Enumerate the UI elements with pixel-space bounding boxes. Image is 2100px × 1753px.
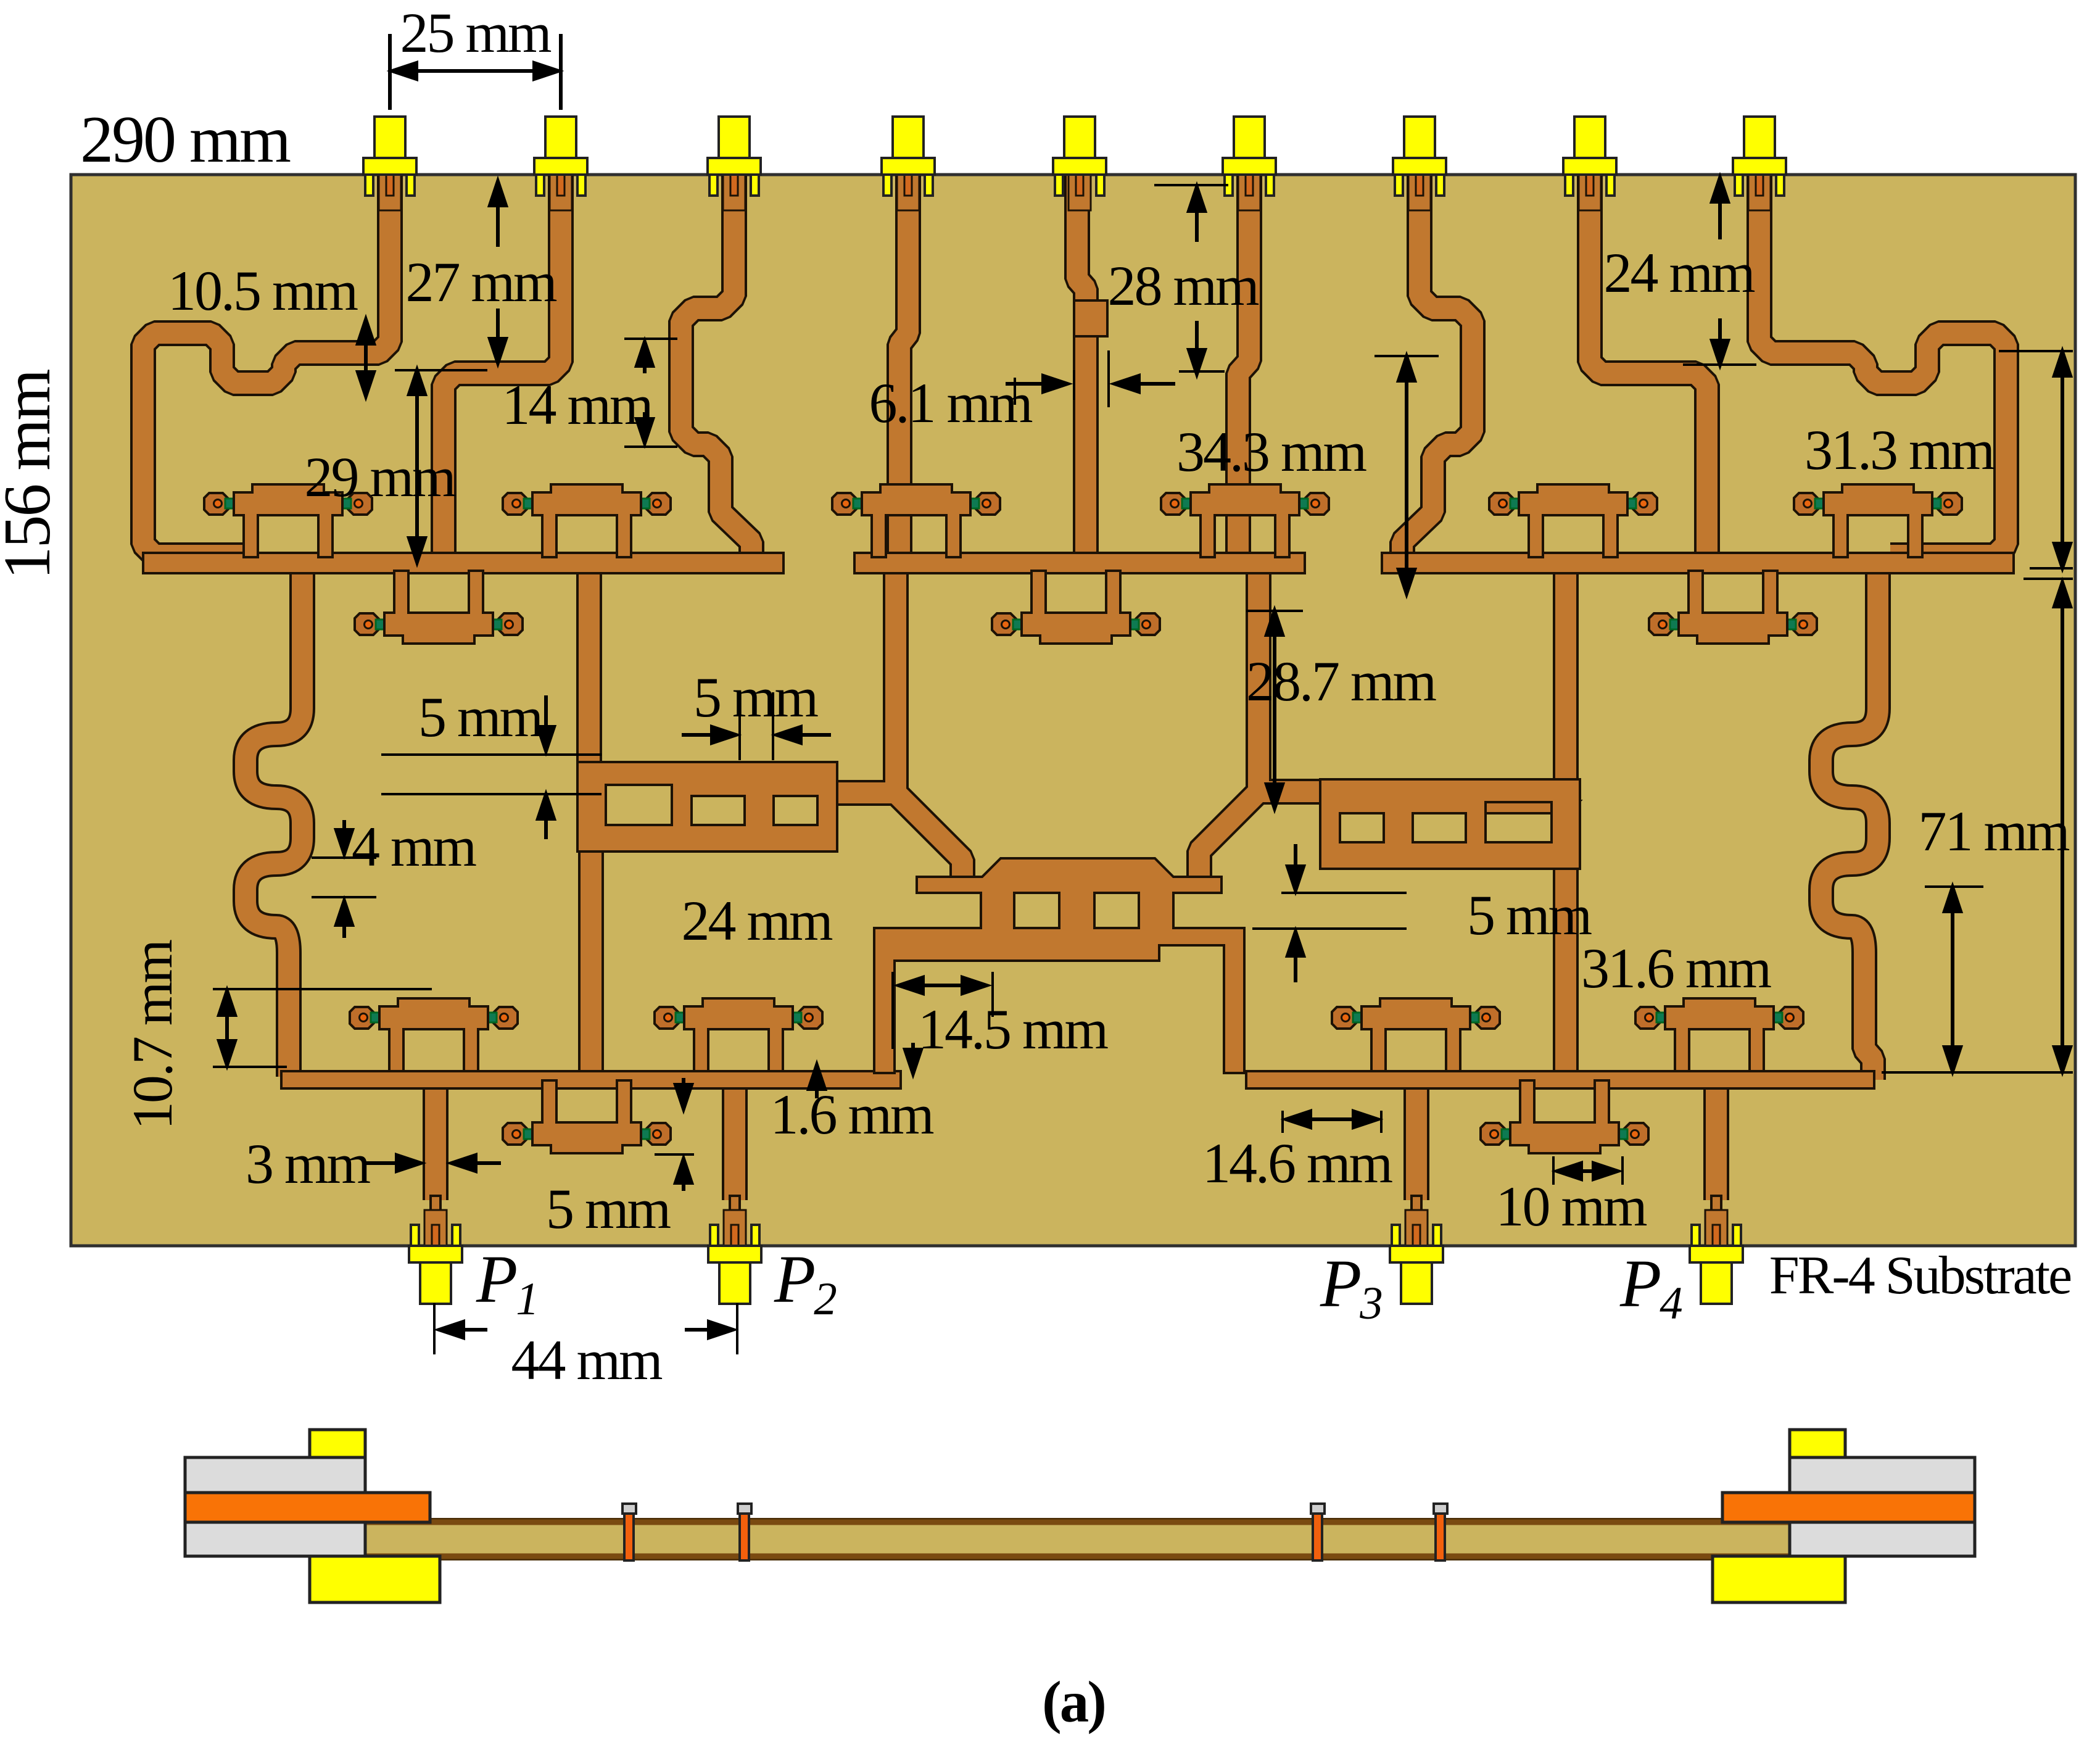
- connector A5: [1053, 117, 1106, 210]
- dim 31.3mm arrow: [2061, 355, 2064, 564]
- svg-text:14.6 mm: 14.6 mm: [1202, 1132, 1393, 1195]
- svg-text:31.6 mm: 31.6 mm: [1581, 937, 1772, 1000]
- svg-text:28.7 mm: 28.7 mm: [1246, 650, 1437, 713]
- connector P3: [1390, 1210, 1443, 1304]
- dim 1.6mm arrows: [911, 1043, 915, 1056]
- wire D5 stem: [1553, 568, 1579, 796]
- dim 28.7mm arrow: [1273, 615, 1276, 805]
- connector A3: [708, 117, 761, 210]
- svg-text:5 mm: 5 mm: [693, 666, 819, 729]
- port narrow pins: [431, 1196, 440, 1246]
- connector A9: [1733, 117, 1786, 210]
- divider D5: [1489, 484, 1657, 557]
- svg-text:5 mm: 5 mm: [546, 1177, 671, 1240]
- wire conn3 feed (fill): [681, 164, 751, 560]
- sideview right connector orange pin: [1722, 1493, 1975, 1522]
- dim 5mm bottom arrows: [682, 1179, 685, 1191]
- wire D4 stem: [1246, 568, 1271, 792]
- sideview left connector orange pin: [185, 1493, 430, 1522]
- combiner C24L bump: [679, 784, 821, 796]
- svg-text:(a): (a): [1042, 1669, 1105, 1734]
- wire conn9 feed meander: [1759, 164, 2006, 555]
- wire C24L output down (fill): [581, 847, 601, 1077]
- wire conn4 feed: [899, 164, 908, 558]
- sideview left connector lower gray: [185, 1522, 365, 1556]
- connector A1: [363, 117, 416, 210]
- dim 14mm arrows: [643, 346, 647, 373]
- svg-text:28 mm: 28 mm: [1107, 254, 1259, 317]
- sideview left connector upper gray: [185, 1457, 365, 1493]
- divider D2: [503, 484, 671, 557]
- dim 24mm arrows (top right): [1718, 181, 1722, 239]
- wire P4 stub (fill): [1706, 1085, 1727, 1200]
- bus row1 middle: [854, 553, 1305, 573]
- wire P1 stub (fill): [425, 1085, 446, 1200]
- connector A2: [534, 117, 587, 210]
- svg-text:14 mm: 14 mm: [502, 373, 653, 436]
- dim 5mm mid ticks/arrows: [738, 692, 741, 760]
- svg-text:1.6 mm: 1.6 mm: [770, 1083, 934, 1146]
- svg-text:5 mm: 5 mm: [418, 686, 544, 748]
- divider DL1: [350, 998, 518, 1071]
- connector A4: [882, 117, 935, 210]
- wire P3 stub (fill): [1406, 1085, 1427, 1200]
- wire D3 stem: [883, 568, 909, 793]
- wire D6 stem + right serpentine: [1821, 568, 1878, 1080]
- svg-text:31.3 mm: 31.3 mm: [1804, 418, 1995, 481]
- wire conn1 feed meander (fill): [143, 164, 390, 555]
- sideview via 4: [1434, 1504, 1447, 1560]
- wire conn9 feed meander (fill): [1759, 164, 2006, 555]
- divider D6: [1794, 484, 1962, 557]
- dim 44mm ticks: [433, 1303, 436, 1354]
- wire conn6 feed: [1238, 164, 1249, 558]
- wire conn2 feed: [444, 164, 561, 558]
- wire wing C24R to CC (fill): [1199, 792, 1329, 890]
- svg-text:290 mm: 290 mm: [80, 103, 291, 176]
- divider D1: [204, 484, 372, 557]
- extension line right bottom: [1882, 1071, 2073, 1074]
- svg-text:29 mm: 29 mm: [304, 446, 456, 508]
- wire wing C24R to CC: [1199, 792, 1329, 890]
- dim 10.7mm arrow: [225, 995, 229, 1061]
- svg-text:44 mm: 44 mm: [511, 1328, 663, 1391]
- wire conn1 feed meander: [143, 164, 390, 555]
- divider DR2: [1332, 998, 1500, 1071]
- svg-text:FR-4 Substrate: FR-4 Substrate: [1769, 1246, 2071, 1306]
- svg-text:4 mm: 4 mm: [352, 815, 477, 878]
- dim 10.5mm arrow: [364, 323, 368, 392]
- wire D4 stem (fill): [1248, 568, 1269, 792]
- divider DR4: [1635, 998, 1803, 1071]
- svg-text:71 mm: 71 mm: [1918, 800, 2070, 863]
- dim 5mm right arrows: [1294, 844, 1297, 871]
- svg-text:5 mm: 5 mm: [1467, 884, 1592, 947]
- wire wing C24L to CC: [830, 793, 962, 890]
- wire conn6 feed (fill): [1238, 164, 1249, 558]
- divider DR1: [655, 998, 822, 1071]
- sideview right connector big yellow body: [1713, 1556, 1845, 1602]
- svg-text:14.5 mm: 14.5 mm: [918, 998, 1109, 1061]
- connector P2: [708, 1210, 761, 1304]
- svg-text:10.7 mm: 10.7 mm: [121, 940, 184, 1130]
- dim 34.3mm arrow: [1405, 360, 1408, 590]
- bus ports right: [1246, 1071, 1874, 1088]
- wire D2 stem: [576, 568, 602, 777]
- wire conn3 feed: [681, 164, 751, 560]
- connector A7: [1393, 117, 1446, 210]
- combiner C24L: [577, 762, 837, 852]
- svg-text:10.5 mm: 10.5 mm: [168, 259, 358, 322]
- dim 25mm arrow: [400, 69, 551, 73]
- connector P4: [1690, 1210, 1743, 1304]
- wire D3 stem (fill): [885, 568, 906, 793]
- svg-text:6.1 mm: 6.1 mm: [869, 371, 1033, 434]
- wire C24R output down (fill): [1555, 864, 1576, 1077]
- sideview left connector small yellow tab: [310, 1430, 365, 1457]
- sideview board strip: [365, 1519, 1790, 1559]
- dim 14.6mm arrow: [1281, 1111, 1284, 1133]
- wire conn8 feed (fill): [1590, 164, 1707, 558]
- combiner C24R bump: [1463, 801, 1580, 813]
- sideview top copper line: [365, 1520, 1790, 1525]
- wire P2 stub (fill): [724, 1085, 745, 1200]
- sideview right connector small yellow tab: [1790, 1430, 1845, 1457]
- dim 6.1mm arrows: [1006, 382, 1050, 386]
- wire P1 stub: [423, 1085, 449, 1200]
- divider RD1 flipped: [355, 571, 523, 644]
- dim 14.5mm arrow: [891, 972, 894, 1049]
- dim 4mm arrows: [342, 820, 346, 838]
- wire wing C24L to CC (fill): [830, 793, 962, 890]
- combiner C24R: [1320, 779, 1580, 869]
- svg-text:34.3 mm: 34.3 mm: [1176, 420, 1367, 483]
- connector P1: [409, 1210, 462, 1304]
- sideview right connector lower gray: [1790, 1522, 1975, 1556]
- combiner central CC: [874, 858, 1244, 1073]
- wire D1 stem + left serpentine: [246, 568, 302, 1077]
- dim 10mm arrow: [1552, 1156, 1555, 1185]
- wire conn7 feed (fill): [1402, 164, 1473, 560]
- divider D4: [1161, 484, 1329, 557]
- wire conn4 feed (fill): [899, 164, 908, 558]
- dim 71mm arrow: [2061, 586, 2064, 1067]
- svg-text:10 mm: 10 mm: [1495, 1175, 1647, 1238]
- dim 5mm left arrow: [544, 695, 548, 734]
- sideview left connector big yellow body: [310, 1556, 440, 1602]
- dim 44mm arrows: [457, 1328, 487, 1332]
- wire conn5 feed: [1077, 164, 1086, 558]
- dim 25mm ticks: [388, 34, 392, 110]
- wire P3 stub: [1403, 1085, 1429, 1200]
- svg-text:24 mm: 24 mm: [681, 889, 833, 952]
- wire conn2 feed (fill): [444, 164, 561, 558]
- wire D1 stem + left serpentine (fill): [246, 568, 302, 1077]
- wire D2 stem (fill): [579, 568, 600, 777]
- bus row1 right: [1382, 553, 2014, 573]
- connector A8: [1563, 117, 1616, 210]
- divider DL2 flipped: [503, 1080, 671, 1153]
- wire D6 stem + right serpentine (fill): [1821, 568, 1878, 1080]
- divider DR3 flipped: [1481, 1080, 1648, 1153]
- wire P4 stub: [1703, 1085, 1729, 1200]
- sideview via 1: [622, 1504, 636, 1560]
- svg-text:25 mm: 25 mm: [400, 1, 552, 64]
- dim 27mm arrows: [496, 185, 500, 247]
- sideview via 3: [1311, 1504, 1325, 1560]
- divider RD3 flipped: [1649, 571, 1817, 644]
- wire C24L output down: [578, 847, 604, 1077]
- sideview right connector upper gray: [1790, 1457, 1975, 1493]
- svg-text:24 mm: 24 mm: [1603, 241, 1755, 304]
- sideview via 2: [738, 1504, 751, 1560]
- svg-text:156 mm: 156 mm: [0, 370, 64, 580]
- dim 29mm arrow: [415, 374, 419, 558]
- svg-text:3 mm: 3 mm: [246, 1132, 371, 1195]
- dim 28mm arrows: [1195, 191, 1199, 242]
- divider RD2 flipped: [992, 571, 1160, 644]
- wire conn5 feed (fill): [1077, 164, 1086, 558]
- wire D5 stem (fill): [1555, 568, 1576, 796]
- dim 31.6mm arrow: [1951, 891, 1954, 1067]
- connector A6: [1223, 117, 1276, 210]
- wire conn8 feed: [1590, 164, 1707, 558]
- dim 3mm arrows: [364, 1161, 400, 1165]
- FR-4 substrate board: [71, 175, 2075, 1246]
- sideview bottom copper line: [365, 1554, 1790, 1559]
- wire P2 stub: [722, 1085, 748, 1200]
- wire C24R output down: [1553, 864, 1579, 1077]
- bus row1 left: [143, 553, 783, 573]
- bus ports left: [281, 1071, 901, 1088]
- divider D3: [832, 484, 1000, 557]
- conn5 impedance step bulge: [1074, 300, 1107, 336]
- wire conn7 feed: [1402, 164, 1473, 560]
- svg-text:27 mm: 27 mm: [405, 251, 557, 313]
